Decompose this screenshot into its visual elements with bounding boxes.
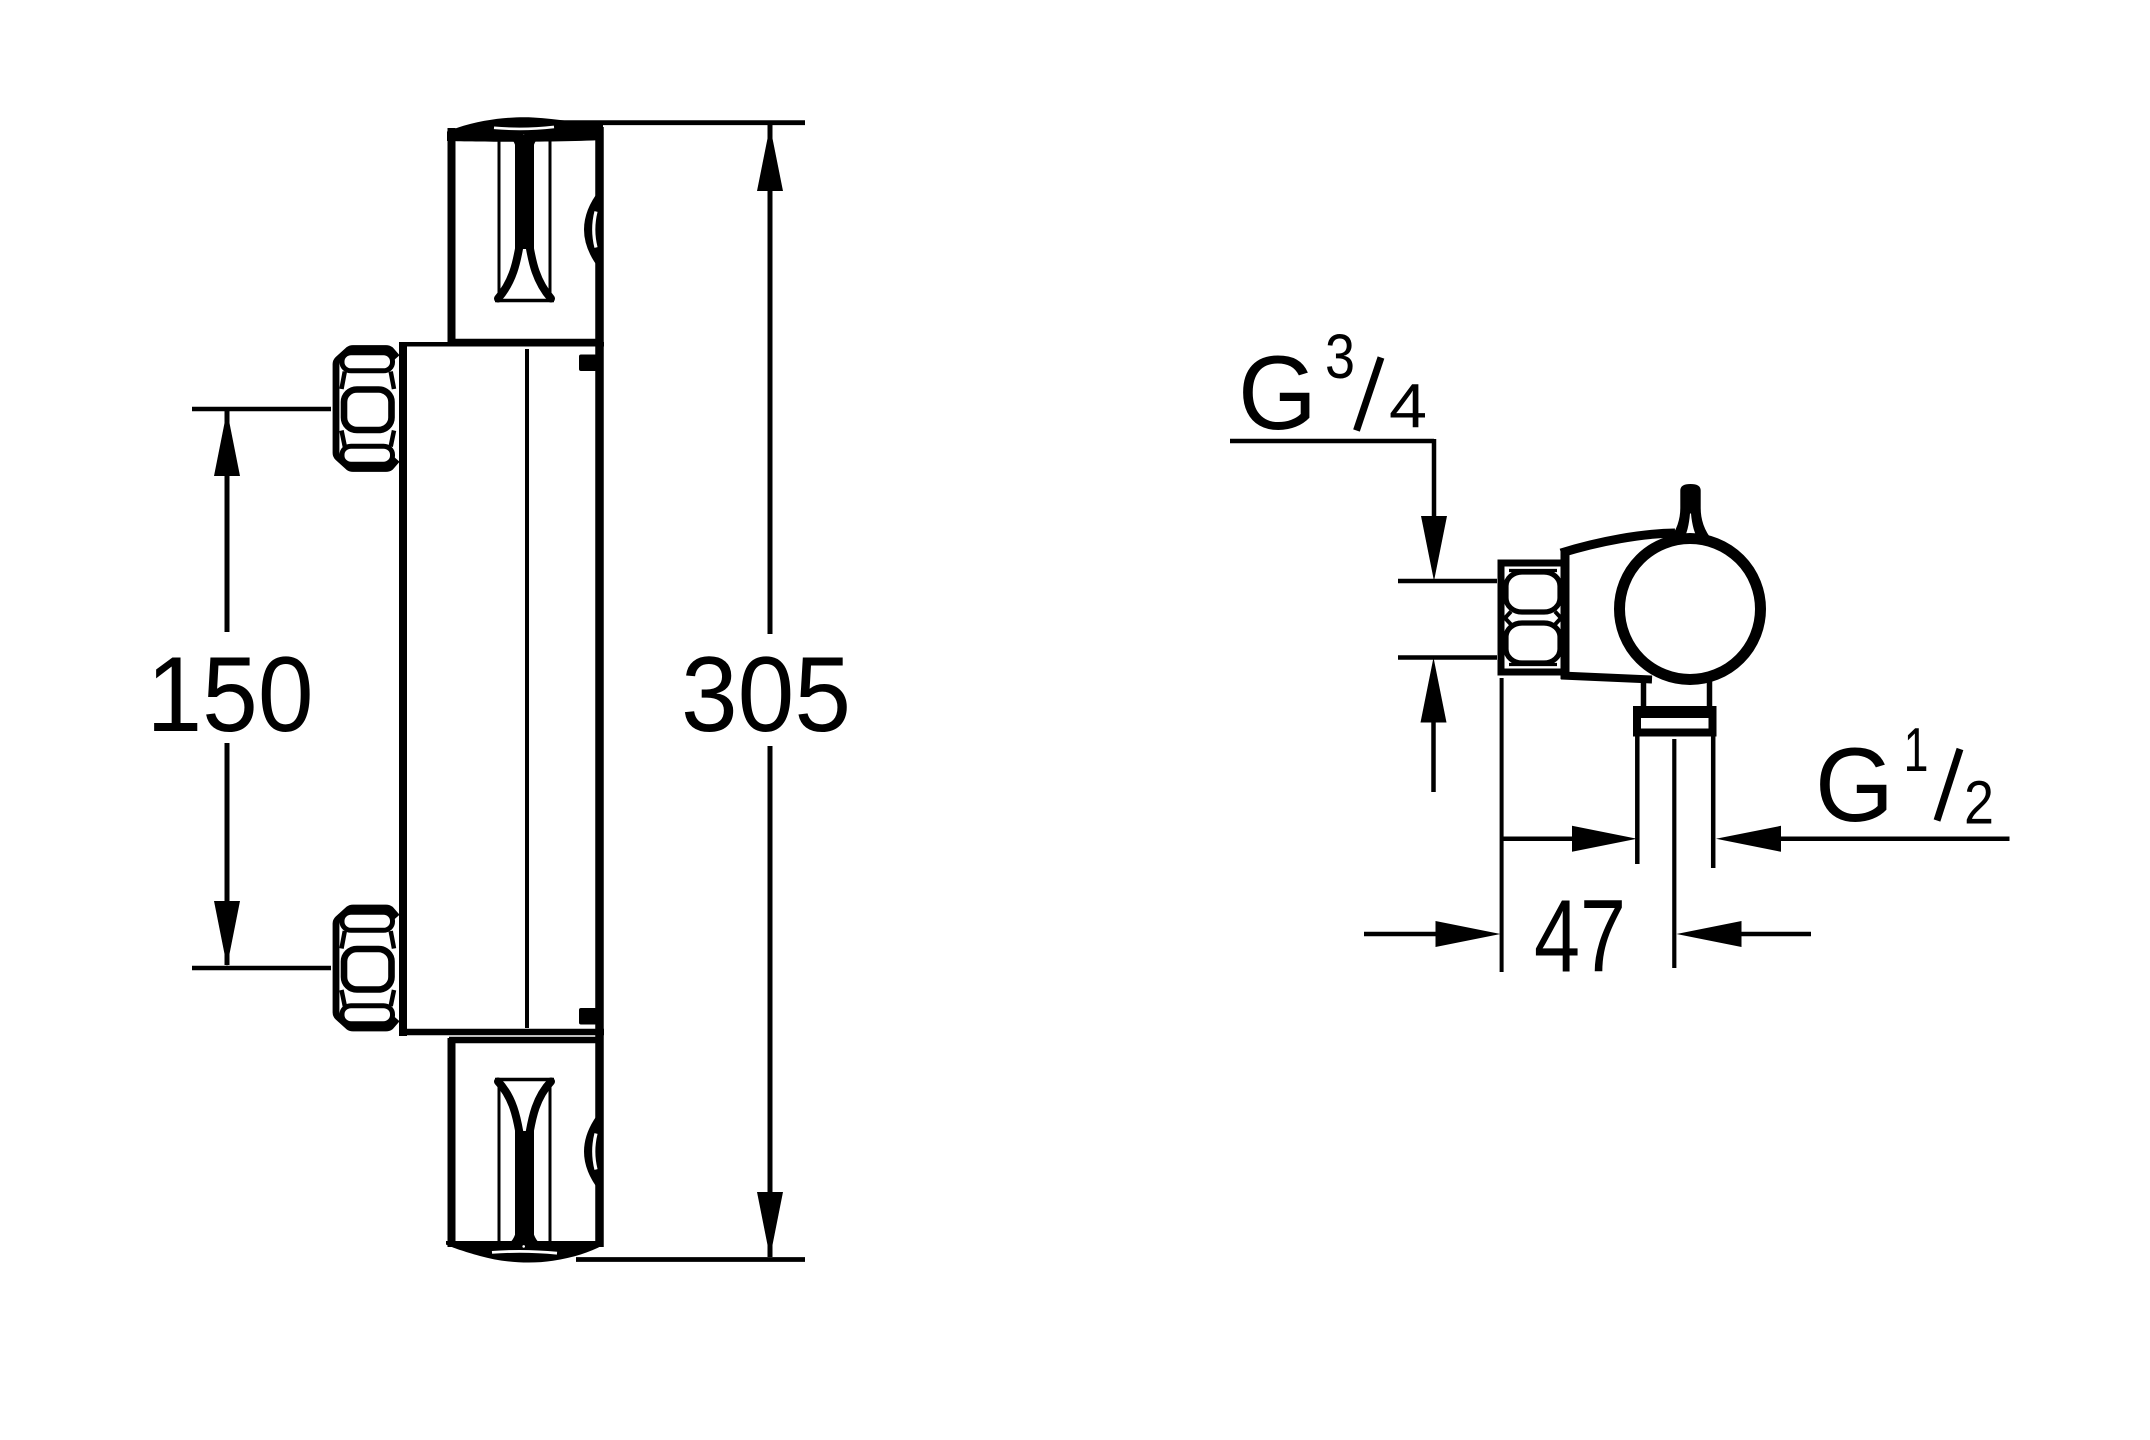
svg-text:47: 47 (1534, 879, 1626, 994)
svg-text:150: 150 (147, 634, 314, 754)
svg-text:2: 2 (1964, 769, 1994, 837)
svg-text:G: G (1815, 727, 1894, 844)
svg-text:3: 3 (1325, 322, 1355, 392)
svg-text:4: 4 (1389, 372, 1427, 441)
svg-text:1: 1 (1904, 716, 1929, 785)
svg-text:305: 305 (681, 634, 851, 754)
svg-text:G: G (1238, 335, 1317, 452)
